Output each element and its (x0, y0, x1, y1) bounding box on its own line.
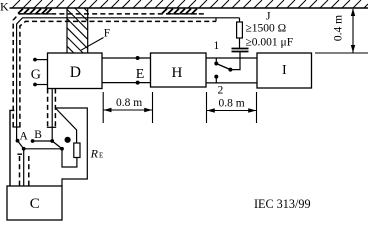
wire: D to H lower with node E dot (102, 81, 151, 85)
box I (257, 53, 312, 88)
wire: core conductor, top run to network J (17, 18, 240, 141)
switch pole dot (50, 139, 54, 143)
node B (31, 139, 35, 143)
dimension 0.8 m (D to H) (103, 92, 152, 123)
box C (generator) (7, 186, 62, 220)
wire: H to I upper (206, 57, 257, 59)
switch contact 1 (214, 58, 218, 66)
wire: B to pole (33, 140, 53, 142)
svg-text:B: B (34, 129, 42, 141)
svg-text:R: R (90, 147, 99, 161)
switch blade (lower selector) (52, 141, 62, 149)
svg-text:A: A (20, 131, 29, 143)
resistor J (&#8805;1500 ohm) (237, 18, 243, 49)
svg-text:≥1500 Ω: ≥1500 Ω (246, 23, 287, 35)
capacitor J (&#8805;0.001 uF) (232, 49, 249, 52)
svg-text:D: D (70, 64, 81, 81)
wire: diagonal screen branch to RE (55, 108, 76, 143)
label F with leader (81, 28, 110, 51)
screen end tick (D cable) (47, 126, 56, 128)
svg-text:E: E (99, 151, 103, 159)
wire: generator C core up to rail (23, 149, 25, 186)
wire: H to I lower (206, 82, 257, 84)
terminal G upper (33, 58, 47, 62)
junction dot rail left (22, 147, 26, 151)
wire: D cable core down to switch pole (51, 89, 53, 142)
spare contact dot (65, 137, 71, 143)
svg-text:E: E (136, 67, 145, 82)
wire: C ground lead to outer screen (10, 110, 14, 186)
screen hook tick (C cable) (17, 153, 22, 155)
wire: outer screen (dashed) of cable from C loop, top run (13, 14, 205, 127)
screen end tick (left cable) (13, 126, 21, 128)
switch blade (216, 64, 232, 72)
equipment reference line (0.4 m datum) (315, 52, 368, 54)
wire: inner screen (dashed), top run (20, 21, 216, 127)
svg-text:1: 1 (214, 40, 220, 52)
dimension 0.4 m arrow (351, 8, 355, 52)
bonding strap 1 (screen to plane) (18, 9, 52, 14)
box H (151, 53, 207, 87)
svg-text:I: I (282, 63, 287, 78)
wire: RE bottom return to core rail (62, 149, 77, 167)
ground plane hatching (12, 0, 368, 8)
svg-text:0.8 m: 0.8 m (116, 97, 142, 109)
cable from D: screen (dashed pair) (48, 89, 56, 128)
resistor RE (74, 143, 80, 158)
svg-text:2: 2 (218, 85, 224, 97)
junction dot rail right (60, 147, 64, 151)
switch contact 2 (214, 75, 218, 83)
terminal G lower (33, 83, 47, 87)
svg-text:0.8 m: 0.8 m (219, 98, 245, 110)
wire: screen rail to coupling loop (55, 108, 87, 186)
wire: capacitor to switch blade node (230, 52, 240, 70)
svg-text:K: K (0, 0, 9, 14)
wire: core rail (24, 148, 62, 150)
box D (EUT) (48, 53, 103, 89)
hatched bonding column F (67, 8, 88, 53)
wire: D to H upper with node E dot (102, 56, 151, 60)
cable from C: screen (dashed pair) (20, 156, 29, 186)
svg-text:≥0.001 μF: ≥0.001 μF (246, 37, 294, 49)
svg-text:C: C (30, 196, 40, 212)
node A (16, 139, 20, 143)
svg-text:F: F (104, 28, 110, 40)
svg-text:H: H (172, 65, 183, 81)
dimension 0.8 m (switch to I) (207, 92, 257, 123)
junction: inner screen tied to core wire (215, 18, 217, 22)
svg-text:J: J (266, 11, 271, 23)
bonding strap 2 (screen to plane) (162, 9, 197, 14)
svg-text:G: G (31, 68, 41, 83)
svg-text:0.4 m: 0.4 m (333, 15, 345, 41)
svg-text:IEC 313/99: IEC 313/99 (254, 197, 311, 211)
ground plane K: reference plane line (10, 7, 368, 9)
wire: A diagonal to rail (18, 141, 24, 149)
